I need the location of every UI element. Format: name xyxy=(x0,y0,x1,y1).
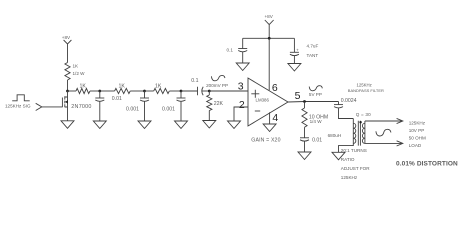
resistor R1 1K 1/2W xyxy=(65,63,85,81)
node B xyxy=(98,90,101,93)
ground at pin 4 xyxy=(263,124,276,132)
wire node A to R2 xyxy=(68,90,77,92)
svg-text:4.7uF: 4.7uF xyxy=(307,44,319,49)
sine symbol at output xyxy=(309,86,322,91)
wire pin 6 xyxy=(268,38,270,90)
ground under C1 xyxy=(93,121,106,129)
capacitor C8 0.0024 xyxy=(334,98,357,108)
svg-text:0.01% DISTORTION: 0.01% DISTORTION xyxy=(396,161,458,168)
svg-text:1K: 1K xyxy=(73,64,80,69)
svg-text:3: 3 xyxy=(238,80,244,92)
capacitor C5 0.1 bypass xyxy=(227,38,248,63)
svg-text:RATIO: RATIO xyxy=(341,157,355,162)
ground at pin 2 xyxy=(228,121,241,129)
svg-text:10V PP: 10V PP xyxy=(409,128,425,133)
svg-text:0.1: 0.1 xyxy=(227,47,234,52)
svg-text:0.001: 0.001 xyxy=(162,107,175,113)
svg-text:0.0024: 0.0024 xyxy=(341,98,357,104)
svg-text:LOAD: LOAD xyxy=(409,143,422,148)
svg-text:0.1: 0.1 xyxy=(191,78,198,84)
input pulse symbol xyxy=(12,95,30,101)
wire output to C8 xyxy=(338,102,340,105)
wire R3 to node C xyxy=(130,90,144,92)
svg-text:200mV PP: 200mV PP xyxy=(206,83,228,88)
node A drain junction xyxy=(66,90,69,93)
wire C8 to transformer primary xyxy=(339,108,354,118)
transformer T1 core xyxy=(358,121,360,146)
svg-text:+8V: +8V xyxy=(265,14,274,19)
svg-text:50 OHM: 50 OHM xyxy=(409,136,426,141)
node C xyxy=(143,90,146,93)
wire input to gate xyxy=(42,106,63,108)
capacitor C7 0.01 zobel xyxy=(300,138,322,153)
ground under C5 xyxy=(236,63,249,71)
transformer phase dot xyxy=(359,121,361,123)
power +8V V2 xyxy=(265,14,274,39)
label 20:1 TURNS RATIO ADJUST FOR 125KHz xyxy=(341,148,370,180)
svg-text:1K: 1K xyxy=(80,84,87,90)
svg-text:2N7000: 2N7000 xyxy=(71,104,91,110)
svg-text:680uH: 680uH xyxy=(328,133,342,138)
ground under Q1 xyxy=(61,121,74,129)
resistor R6 10 OHM 1/4 W xyxy=(302,102,328,138)
output arrow bottom xyxy=(365,141,403,146)
svg-text:0.001: 0.001 xyxy=(126,107,139,113)
svg-text:1K: 1K xyxy=(155,84,162,90)
wire R4 to node D xyxy=(169,90,181,92)
wire pin 4 xyxy=(269,112,271,124)
wire node D to C4 xyxy=(181,90,198,92)
op-amp U1 LM386 xyxy=(248,78,288,126)
svg-text:1/2 W: 1/2 W xyxy=(73,71,86,76)
svg-text:BANDPASS FILTER: BANDPASS FILTER xyxy=(348,88,384,93)
capacitor C6 4.7uF TANT xyxy=(290,38,319,63)
node D xyxy=(180,90,183,93)
resistor R2 1K xyxy=(76,84,90,94)
wire node B to R3 xyxy=(100,90,115,92)
label 125KHz BANDPASS FILTER xyxy=(348,83,384,93)
svg-text:5V PP: 5V PP xyxy=(309,92,322,97)
svg-text:1/4 W: 1/4 W xyxy=(310,119,323,124)
svg-text:LM386: LM386 xyxy=(256,97,270,102)
svg-text:0.01: 0.01 xyxy=(112,96,122,102)
wire node C to R4 xyxy=(145,90,154,92)
input arrow xyxy=(36,103,42,110)
svg-text:22K: 22K xyxy=(214,101,224,107)
ground under R5 xyxy=(203,121,216,129)
transformer T1 primary winding 680uH xyxy=(328,119,356,144)
output arrow top xyxy=(365,118,403,123)
transistor Q1 2N7000 xyxy=(62,91,91,121)
svg-text:Q = 30: Q = 30 xyxy=(356,112,371,117)
ground under C2 xyxy=(138,121,151,129)
ground under C6 xyxy=(288,64,301,72)
capacitor C1 0.01 xyxy=(95,91,122,121)
power +8V V1 xyxy=(62,35,72,63)
ground under C3 xyxy=(175,121,188,129)
wire pin 2 to ground xyxy=(234,107,248,121)
ground under C7 xyxy=(298,152,311,160)
svg-text:125KHz: 125KHz xyxy=(341,175,358,180)
svg-text:2: 2 xyxy=(239,99,245,111)
svg-text:GAIN = X20: GAIN = X20 xyxy=(251,138,280,144)
svg-text:125KHz: 125KHz xyxy=(357,83,372,88)
svg-text:4: 4 xyxy=(272,112,278,124)
svg-text:TANT: TANT xyxy=(307,53,319,58)
wire R1 to node A xyxy=(67,80,69,91)
label block 125KHz 10V PP 50 OHM LOAD xyxy=(409,120,426,148)
capacitor C4 0.1 series xyxy=(191,78,203,96)
node F on rail xyxy=(268,37,271,40)
svg-text:20:1 TURNS: 20:1 TURNS xyxy=(341,148,367,153)
capacitor C3 0.001 xyxy=(162,91,186,121)
ground under transformer xyxy=(332,152,345,160)
svg-text:0.01: 0.01 xyxy=(312,138,322,144)
node E xyxy=(208,90,211,93)
resistor R5 22K xyxy=(207,91,224,121)
svg-text:125KHz: 125KHz xyxy=(409,120,426,125)
svg-text:+8V: +8V xyxy=(62,35,71,40)
svg-text:125KHz SIG: 125KHz SIG xyxy=(5,104,31,109)
sine symbol at secondary xyxy=(376,129,391,136)
resistor R3 1K xyxy=(115,84,131,94)
wire primary bottom to ground xyxy=(339,143,354,152)
wire pin 5 output xyxy=(288,101,339,104)
wire R2 to node B xyxy=(90,90,100,92)
wire supply rail xyxy=(243,37,295,39)
wire C4 to node E xyxy=(202,90,210,92)
sine symbol at node E xyxy=(211,75,225,80)
transformer T1 secondary winding xyxy=(362,121,365,143)
svg-text:1K: 1K xyxy=(119,84,126,90)
resistor R4 1K xyxy=(154,84,170,94)
capacitor C2 0.001 xyxy=(126,91,149,121)
svg-text:ADJUST FOR: ADJUST FOR xyxy=(341,166,370,171)
node G output junction xyxy=(303,100,306,103)
svg-text:6: 6 xyxy=(272,82,278,94)
wire node E to pin 3 xyxy=(209,90,248,92)
svg-text:5: 5 xyxy=(295,90,301,102)
